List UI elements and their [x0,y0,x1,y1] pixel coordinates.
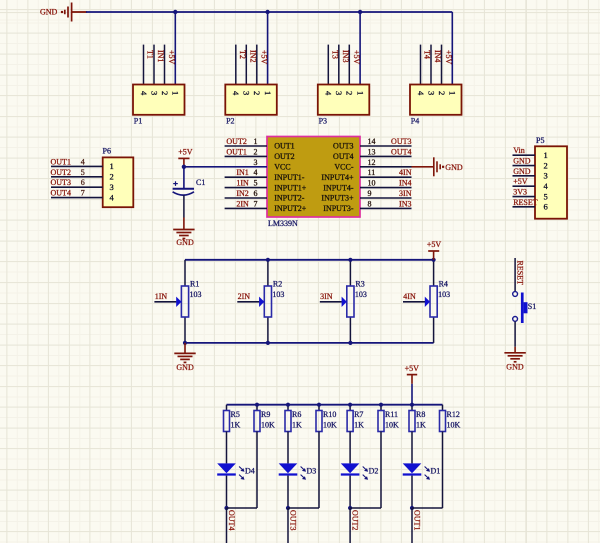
svg-text:OUT3: OUT3 [51,178,71,187]
svg-text:INPUT3+: INPUT3+ [321,194,354,203]
svg-text:IN1: IN1 [156,50,165,62]
svg-text:6: 6 [81,178,85,187]
svg-text:1: 1 [448,91,458,95]
svg-text:INPUT1-: INPUT1- [274,173,305,182]
svg-text:6: 6 [254,189,258,198]
svg-text:OUT2: OUT2 [226,137,246,146]
svg-text:GND: GND [40,8,58,17]
svg-text:R5: R5 [231,410,240,419]
svg-text:P5: P5 [536,136,544,145]
svg-text:INPUT1+: INPUT1+ [274,183,307,192]
svg-text:1: 1 [544,150,548,160]
svg-text:IN3: IN3 [399,199,411,208]
svg-text:3IN: 3IN [320,292,333,301]
svg-text:OUT3: OUT3 [391,137,411,146]
svg-text:2IN: 2IN [236,199,249,208]
svg-text:R2: R2 [273,280,282,289]
svg-text:D2: D2 [369,466,379,475]
svg-text:R9: R9 [261,410,270,419]
svg-text:11: 11 [368,168,376,177]
svg-text:GND: GND [176,238,194,247]
svg-text:3: 3 [149,91,159,95]
svg-text:5: 5 [544,191,548,201]
svg-text:OUT1: OUT1 [51,157,71,166]
svg-text:INPUT4-: INPUT4- [323,183,354,192]
svg-text:103: 103 [190,290,202,299]
svg-text:2: 2 [345,91,355,95]
svg-text:RESET: RESET [513,198,538,207]
svg-text:Vin: Vin [513,146,525,155]
svg-text:OUT2: OUT2 [274,152,294,161]
svg-text:OUT3: OUT3 [288,510,297,530]
svg-text:R8: R8 [416,410,425,419]
svg-text:103: 103 [438,290,450,299]
svg-text:14: 14 [368,137,376,146]
svg-text:INPUT3-: INPUT3- [323,204,354,213]
svg-text:OUT4: OUT4 [391,147,411,156]
svg-text:4: 4 [139,91,149,96]
svg-text:3: 3 [334,91,344,95]
svg-text:R6: R6 [292,410,301,419]
svg-text:5: 5 [81,168,85,177]
svg-text:3V3: 3V3 [513,188,527,197]
svg-text:R4: R4 [439,280,448,289]
svg-text:GND: GND [176,363,194,372]
svg-text:OUT2: OUT2 [51,168,71,177]
svg-text:4: 4 [416,91,426,96]
svg-text:D4: D4 [245,466,255,475]
svg-text:2: 2 [437,91,447,95]
svg-text:3: 3 [254,158,258,167]
svg-text:1: 1 [263,91,273,95]
svg-text:IN3: IN3 [341,50,350,62]
svg-text:OUT2: OUT2 [350,510,359,530]
svg-text:R10: R10 [323,410,336,419]
svg-text:9: 9 [368,189,372,198]
svg-text:C1: C1 [196,178,205,187]
svg-text:P2: P2 [226,117,234,126]
svg-text:4: 4 [231,91,241,96]
svg-text:IN2: IN2 [236,189,248,198]
svg-text:13: 13 [368,147,376,156]
svg-text:+5V: +5V [259,50,268,65]
svg-text:GND: GND [513,157,531,166]
svg-text:OUT3: OUT3 [333,142,353,151]
svg-text:OUT4: OUT4 [333,152,353,161]
svg-text:+5V: +5V [444,50,453,65]
svg-text:4IN: 4IN [403,292,416,301]
svg-text:1K: 1K [231,421,241,430]
svg-text:P3: P3 [319,117,327,126]
svg-text:7: 7 [254,199,258,208]
svg-text:1IN: 1IN [236,179,249,188]
svg-text:R1: R1 [190,280,199,289]
svg-text:5: 5 [254,179,258,188]
svg-text:+5V: +5V [167,50,176,65]
svg-text:INPUT4+: INPUT4+ [321,173,354,182]
svg-text:OUT1: OUT1 [274,142,294,151]
svg-text:10: 10 [368,179,376,188]
svg-text:10K: 10K [385,421,399,430]
svg-text:1: 1 [110,161,114,171]
svg-text:+5V: +5V [178,148,193,157]
svg-text:OUT1: OUT1 [226,147,246,156]
svg-text:6: 6 [544,202,548,212]
svg-text:INPUT2-: INPUT2- [274,194,305,203]
svg-text:LM339N: LM339N [268,219,298,228]
svg-text:10K: 10K [447,421,461,430]
svg-text:3IN: 3IN [399,189,412,198]
svg-text:T1: T1 [146,50,155,59]
svg-text:R7: R7 [354,410,363,419]
svg-text:2: 2 [160,91,170,95]
svg-text:T3: T3 [331,50,340,59]
svg-text:+5V: +5V [405,364,420,373]
svg-text:10K: 10K [261,421,275,430]
svg-text:1K: 1K [354,421,364,430]
svg-text:VCC: VCC [274,163,290,172]
svg-text:12: 12 [368,158,376,167]
svg-text:D3: D3 [307,466,317,475]
svg-text:2IN: 2IN [238,292,251,301]
svg-text:T2: T2 [238,50,247,59]
svg-text:T4: T4 [423,50,432,59]
svg-text:3: 3 [544,171,548,181]
svg-text:OUT4: OUT4 [51,189,71,198]
svg-text:8: 8 [368,199,372,208]
svg-text:VCC-: VCC- [334,163,353,172]
svg-text:R11: R11 [385,410,398,419]
svg-text:IN4: IN4 [433,50,442,62]
svg-text:2: 2 [254,147,258,156]
svg-text:P4: P4 [411,117,419,126]
svg-text:+5V: +5V [427,240,442,249]
svg-text:+5V: +5V [352,50,361,65]
svg-text:GND: GND [445,163,463,172]
svg-text:2: 2 [110,172,114,182]
svg-text:P1: P1 [134,117,142,126]
svg-text:IN4: IN4 [399,179,411,188]
svg-text:3: 3 [242,91,252,95]
svg-text:1K: 1K [292,421,302,430]
svg-text:4: 4 [81,157,85,166]
svg-text:OUT1: OUT1 [412,510,421,530]
svg-text:R12: R12 [447,410,460,419]
svg-text:7: 7 [81,189,85,198]
svg-text:1K: 1K [416,421,426,430]
svg-text:INPUT2+: INPUT2+ [274,204,307,213]
svg-text:2: 2 [544,160,548,170]
svg-text:P6: P6 [103,147,111,156]
svg-text:1: 1 [254,137,258,146]
svg-text:R3: R3 [355,280,364,289]
svg-text:1: 1 [355,91,365,95]
svg-text:IN2: IN2 [249,50,258,62]
svg-text:OUT4: OUT4 [227,510,236,530]
svg-text:4IN: 4IN [399,168,412,177]
svg-text:1: 1 [171,91,181,95]
svg-text:RESET: RESET [515,261,524,286]
svg-text:GND: GND [513,167,531,176]
svg-text:103: 103 [272,290,284,299]
svg-text:4: 4 [324,91,334,96]
svg-text:+5V: +5V [513,177,528,186]
svg-text:1IN: 1IN [155,292,168,301]
svg-text:3: 3 [110,182,114,192]
svg-text:10K: 10K [323,421,337,430]
svg-text:3: 3 [426,91,436,95]
svg-text:GND: GND [506,363,524,372]
svg-text:S1: S1 [528,302,536,311]
svg-text:D1: D1 [431,466,441,475]
svg-text:2: 2 [252,91,262,95]
svg-text:IN1: IN1 [236,168,248,177]
svg-text:103: 103 [355,290,367,299]
svg-text:4: 4 [254,168,258,177]
